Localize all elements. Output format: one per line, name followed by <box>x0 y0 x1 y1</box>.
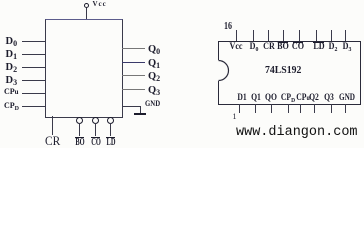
overline pin11 LD <box>313 42 324 43</box>
node CO label <box>91 138 101 148</box>
node CPd label <box>4 102 19 112</box>
pin 16 number label <box>224 22 232 32</box>
pin BO circle (active low) <box>76 117 83 124</box>
pin10 label D2 <box>328 42 337 54</box>
node CPu label <box>4 88 19 96</box>
wire CPu <box>22 93 46 94</box>
pin 11 stub <box>316 30 317 41</box>
pin 1 stub <box>239 104 240 113</box>
node Q0 label <box>148 45 160 56</box>
pin 3 stub <box>271 104 272 113</box>
pin 14 stub <box>268 30 269 41</box>
pin 8 stub <box>345 104 346 113</box>
pin12 label CO <box>292 42 304 51</box>
pin 4 stub <box>288 104 289 113</box>
Vcc pin circle <box>84 3 89 8</box>
node D1 label <box>6 50 18 61</box>
pin6 label Q2 <box>309 93 319 102</box>
pin 5 stub <box>300 104 301 113</box>
node Q3 label <box>148 86 160 97</box>
watermark www.diangon.com <box>236 125 358 140</box>
IC body U1 74LS192 <box>218 41 361 105</box>
node D0 label <box>6 37 18 48</box>
pin7 label Q3 <box>324 93 334 102</box>
node D2 label <box>6 63 18 74</box>
wire D3 <box>22 80 46 81</box>
wire D0 <box>22 41 46 42</box>
pin 1 number label <box>233 113 237 121</box>
pin CO circle (active low) <box>92 117 99 124</box>
node Q1 label <box>148 59 160 70</box>
node D3 label <box>6 76 18 87</box>
pin9 label D3 <box>342 42 351 54</box>
wire Vcc to box <box>86 8 87 20</box>
pin8 label GND <box>339 93 355 102</box>
wire CPd <box>22 106 46 107</box>
pin 13 stub <box>283 30 284 41</box>
overline BO <box>75 137 84 138</box>
overline CO <box>91 137 100 138</box>
pin11 label LD <box>313 42 324 51</box>
pin 15 stub <box>253 30 254 41</box>
pin 2 stub <box>255 104 256 113</box>
pin 6 stub <box>314 104 315 113</box>
wire D2 <box>22 67 46 68</box>
part number 74LS192 <box>265 66 301 77</box>
wire CR pin <box>52 116 53 135</box>
pin 16 stub <box>236 30 237 41</box>
pin2 label Q1 <box>251 93 261 102</box>
wire Q0 <box>122 48 145 49</box>
overline pin12 CO <box>293 42 303 43</box>
node BO label <box>75 138 84 148</box>
pin15 label D0 <box>249 42 258 54</box>
wire BO <box>79 123 80 136</box>
pin4 label CPd <box>281 93 295 105</box>
overline LD <box>106 137 115 138</box>
wire GND vertical <box>140 106 141 114</box>
pin 12 stub <box>299 30 300 41</box>
pin1 label D1 <box>237 93 246 102</box>
pin LD circle (active low) <box>107 117 114 124</box>
wire D1 <box>22 54 46 55</box>
overline pin13 BO <box>278 42 288 43</box>
pin 7 stub <box>331 104 332 113</box>
node LD label <box>106 138 115 148</box>
wire CO <box>95 123 96 136</box>
Vcc label <box>93 1 107 8</box>
op box U1 (74LS192 logic symbol body) <box>45 19 123 118</box>
pin5 label CPu <box>296 93 310 102</box>
pin3 label Q0 <box>265 93 277 102</box>
ground symbol <box>134 113 146 115</box>
pin 9 stub <box>345 30 346 41</box>
pin13 label BO <box>277 42 289 51</box>
pin16 label Vcc <box>229 42 242 51</box>
wire Q3 <box>122 89 145 90</box>
GND label <box>145 100 160 108</box>
wire LD <box>110 123 111 136</box>
pin 10 stub <box>331 30 332 41</box>
wire Q2 <box>122 75 145 76</box>
wire GND horizontal <box>122 106 140 107</box>
notch pin-1 indicator <box>216 58 232 83</box>
pin14 label CR <box>263 42 275 51</box>
node CR label <box>45 134 60 147</box>
node Q2 label <box>148 72 160 83</box>
wire Q1 <box>122 62 145 63</box>
